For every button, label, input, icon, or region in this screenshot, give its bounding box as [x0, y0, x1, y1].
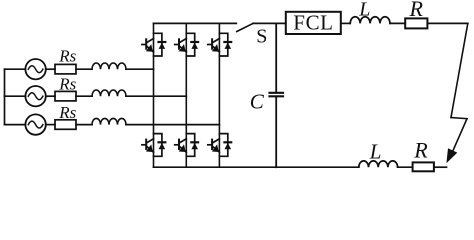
switch S — [237, 23, 253, 31]
wire bus to source 3 — [5, 124, 26, 126]
AC source V1 — [25, 59, 45, 79]
wire phase C to leg 3 — [126, 124, 219, 126]
wire bus to source 2 — [5, 95, 26, 97]
svg-text:L: L — [369, 139, 382, 163]
wire R top to line end — [427, 22, 467, 24]
wire Rs2 to Ls2 — [76, 95, 92, 97]
inductor L top — [350, 17, 390, 24]
svg-text:Rs: Rs — [58, 46, 76, 65]
inductor L bottom — [359, 161, 398, 167]
wire bus to source 1 — [5, 68, 26, 70]
wire dc bottom bus — [154, 166, 277, 168]
wire bridge leg 1 — [153, 23, 155, 167]
wire source 2 to Rs2 — [46, 95, 55, 97]
wire R bottom to fault point — [434, 166, 447, 168]
svg-text:R: R — [409, 0, 424, 21]
resistor R top — [405, 18, 427, 28]
wire FCL to L top — [341, 22, 350, 24]
wire Rs1 to Ls1 — [76, 68, 92, 70]
wire source 1 to Rs1 — [46, 68, 55, 70]
wire bottom bus to L bottom — [276, 166, 359, 168]
transistor Q4 with diode — [142, 134, 165, 157]
svg-text:Rs: Rs — [58, 75, 76, 94]
wire L top to R top — [390, 22, 405, 24]
wire phase B to leg 2 — [126, 95, 186, 97]
wire phase A to leg 1 — [126, 68, 154, 70]
svg-text:S: S — [256, 26, 267, 48]
AC source V2 — [25, 86, 45, 106]
inductor Ls2 — [92, 90, 126, 96]
svg-text:FCL: FCL — [293, 11, 333, 35]
resistor R bottom — [413, 162, 434, 171]
transistor Q5 with diode — [175, 134, 198, 157]
resistor Rs1 — [55, 64, 76, 74]
svg-text:Rs: Rs — [58, 103, 76, 122]
transistor Q1 with diode — [142, 33, 165, 56]
wire bridge leg 3 — [218, 23, 220, 167]
node dc link tap — [275, 23, 277, 91]
wire capacitor to bottom bus — [275, 97, 277, 167]
svg-text:R: R — [413, 137, 428, 162]
svg-text:C: C — [250, 90, 265, 114]
transistor Q6 with diode — [208, 134, 231, 157]
AC source V3 — [25, 114, 45, 134]
fault arrow — [446, 119, 467, 164]
wire bridge leg 2 — [185, 23, 187, 167]
resistor Rs3 — [55, 120, 76, 130]
FCL box — [286, 12, 341, 34]
wire dc top bus — [154, 22, 237, 24]
transistor Q3 with diode — [208, 33, 231, 56]
wire feeder diagonal — [451, 23, 468, 117]
wire Rs3 to Ls3 — [76, 124, 92, 126]
svg-text:L: L — [358, 0, 370, 20]
wire fault jog — [451, 118, 467, 119]
inductor Ls3 — [92, 118, 126, 124]
wire left source bus — [4, 69, 6, 124]
resistor Rs2 — [55, 91, 76, 101]
transistor Q2 with diode — [175, 33, 198, 56]
capacitor C — [270, 93, 284, 97]
wire source 3 to Rs3 — [46, 124, 55, 126]
wire switch to FCL — [253, 22, 286, 24]
wire L bottom to R bottom — [398, 166, 413, 168]
inductor Ls1 — [92, 63, 126, 69]
